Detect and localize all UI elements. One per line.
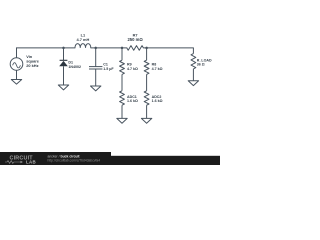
wire R8 top lead xyxy=(146,48,148,60)
CircuitLab logo wire and LAB xyxy=(5,160,36,165)
resistor ADC1 1.6k xyxy=(120,91,125,105)
wire R_LOAD bottom lead xyxy=(192,69,194,81)
node junction R7 right xyxy=(145,47,148,50)
svg-text:250 mΩ: 250 mΩ xyxy=(127,37,143,42)
svg-text:4.7 kΩ: 4.7 kΩ xyxy=(152,67,163,71)
ground under ADC1 xyxy=(117,118,127,123)
wire ADC1 bottom lead xyxy=(121,105,123,118)
voltage source V1 Vin circle xyxy=(10,58,23,71)
resistor R_LOAD 36 Ohm xyxy=(191,54,196,69)
node junction at D1 xyxy=(62,47,65,50)
ground under C1 xyxy=(91,86,101,91)
label R7 250 mOhm xyxy=(127,32,143,42)
svg-text:1.5 µF: 1.5 µF xyxy=(103,67,114,71)
svg-text:1.6 kΩ: 1.6 kΩ xyxy=(127,99,138,103)
wire top rail right segment xyxy=(143,47,193,49)
wire ADC2 bottom lead xyxy=(146,105,148,118)
svg-text:R9: R9 xyxy=(127,63,132,67)
label Vin square 20 kHz xyxy=(26,54,40,68)
wire R8 to ADC2 xyxy=(146,74,148,90)
label C1 1.5 uF xyxy=(103,63,114,71)
label ADC1 1.6 kOhm xyxy=(127,95,138,103)
wire R9 top lead xyxy=(121,48,123,60)
resistor ADC2 1.6k xyxy=(144,91,149,105)
resistor R8 4.7k xyxy=(144,60,149,74)
svg-text:4.7 mH: 4.7 mH xyxy=(77,37,90,42)
svg-text:R8: R8 xyxy=(152,63,157,67)
wire D1 bottom lead xyxy=(63,66,65,85)
ground under R_LOAD xyxy=(188,81,198,86)
wire source bottom lead xyxy=(16,70,18,79)
node junction at C1 xyxy=(94,47,97,50)
node junction R7 left xyxy=(121,47,124,50)
resistor R7 250 mOhm xyxy=(127,46,144,51)
wire source top lead xyxy=(16,48,18,58)
footer bar strip xyxy=(0,156,220,165)
wire top rail middle segment xyxy=(91,47,127,49)
wire R9 to ADC1 xyxy=(121,74,123,90)
svg-text:4.7 kΩ: 4.7 kΩ xyxy=(127,67,138,71)
diode D1 1N4002 xyxy=(59,60,68,66)
wire C1 bottom lead xyxy=(95,69,97,86)
wire D1 top lead xyxy=(63,48,65,60)
label L1 4.7 mH xyxy=(77,33,90,42)
svg-text:20 kHz: 20 kHz xyxy=(26,63,38,68)
capacitor C1 1.5 uF xyxy=(89,67,102,69)
resistor R9 4.7k xyxy=(120,60,125,74)
svg-text:1N4002: 1N4002 xyxy=(68,65,81,69)
wire C1 top lead xyxy=(95,48,97,67)
label R8 4.7 kOhm xyxy=(152,63,163,72)
wire R_LOAD top lead xyxy=(192,48,194,54)
label R9 4.7 kOhm xyxy=(127,63,138,72)
svg-text:LAB: LAB xyxy=(26,160,36,165)
label D1 1N4002 xyxy=(68,61,81,69)
ground under ADC2 xyxy=(141,118,151,123)
svg-text:1.6 kΩ: 1.6 kΩ xyxy=(152,99,163,103)
ground under source xyxy=(11,80,21,85)
label ADC2 1.6 kOhm xyxy=(152,95,163,103)
wire top rail left segment xyxy=(17,47,76,49)
inductor L1 xyxy=(75,44,91,48)
svg-text:http://circuitlab.com/c/7bd43a: http://circuitlab.com/c/7bd43abcvfa4 xyxy=(48,159,101,163)
label R_LOAD 36 Ohm xyxy=(197,58,212,66)
svg-text:36 Ω: 36 Ω xyxy=(197,63,205,67)
ground under D1 xyxy=(58,85,68,90)
footer logo box xyxy=(0,152,111,165)
